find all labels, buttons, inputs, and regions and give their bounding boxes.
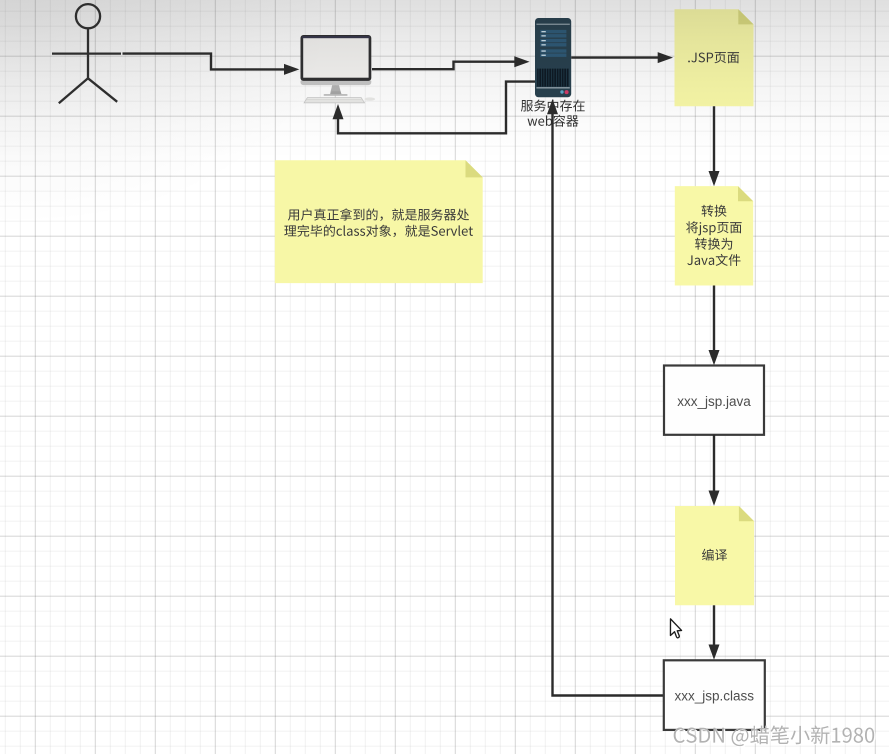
sticky note: JSP页面 <box>675 9 754 106</box>
svg-text:xxx_jsp.java: xxx_jsp.java <box>677 394 751 409</box>
arrowhead into monitor <box>284 64 299 75</box>
svg-text:xxx_jsp.class: xxx_jsp.class <box>675 689 755 704</box>
watermark: CSDN @蜡笔小新1980 <box>674 726 876 748</box>
sticky note: 转换/将jsp页面/转换为/Java文件 <box>675 186 753 285</box>
arrowhead into server <box>514 56 529 67</box>
arrowhead up into server bottom <box>547 99 558 114</box>
box: xxx_jsp.java <box>664 366 764 435</box>
arrowhead into JSP note <box>658 52 673 63</box>
wire: 编译 note down to xxx_jsp.class box <box>713 605 715 645</box>
wire: server back to monitor (response) <box>338 82 535 134</box>
monitor (client computer) <box>301 35 376 103</box>
wire: monitor to server <box>372 62 515 69</box>
sticky note: 编译 <box>675 506 754 605</box>
server tower <box>535 18 571 97</box>
arrowhead into xxx_jsp.class box <box>709 645 720 660</box>
wire: xxx_jsp.java down to 编译 note <box>713 435 715 491</box>
wire: actor to monitor <box>123 54 285 70</box>
sticky note: 用户真正拿到的... Servlet <box>275 160 483 283</box>
arrowhead into xxx_jsp.java box <box>709 350 720 365</box>
box: xxx_jsp.class <box>664 660 765 730</box>
arrowhead into 编译 note <box>709 491 720 506</box>
wire: server to JSP note <box>571 56 658 58</box>
wire: 转换 note down to xxx_jsp.java box <box>713 286 715 351</box>
wire: xxx_jsp.class back up into server <box>553 114 664 696</box>
arrowhead up into monitor keyboard <box>333 104 344 119</box>
mouse cursor <box>670 619 681 638</box>
actor (stick figure user) <box>52 4 121 103</box>
arrowhead into 转换 note <box>709 171 720 186</box>
label: 服务中存在 web容器 <box>521 100 585 127</box>
wire: JSP note down to 转换 note <box>713 106 715 171</box>
